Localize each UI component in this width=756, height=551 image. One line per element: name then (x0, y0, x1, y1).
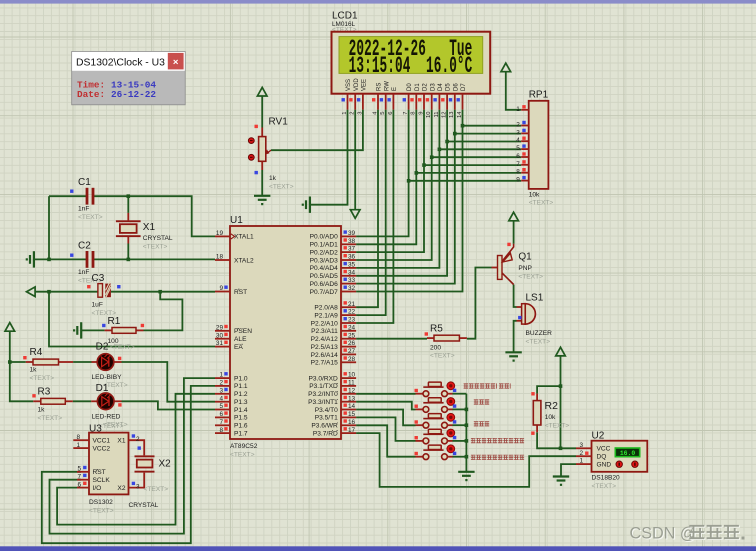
wire RV1 top to power arrow (261, 96, 263, 128)
svg-text:R2: R2 (545, 400, 559, 412)
svg-text:23: 23 (348, 317, 356, 324)
wire R1 left to ground (81, 329, 104, 331)
svg-text:13: 13 (449, 112, 455, 118)
svg-text:9: 9 (516, 177, 520, 184)
wire EA net (49, 292, 215, 347)
svg-text:4: 4 (516, 137, 520, 144)
svg-text:16: 16 (348, 419, 356, 426)
LED D2 (LED-BIBY) (92, 342, 128, 390)
svg-text:ALE: ALE (234, 336, 247, 343)
svg-text:<TEXT>: <TEXT> (269, 184, 294, 191)
wire Q1 collector to LS1 (514, 285, 517, 308)
svg-text:22: 22 (348, 309, 356, 316)
svg-text:31: 31 (216, 340, 224, 347)
svg-text:P0.0/AD0: P0.0/AD0 (310, 234, 339, 241)
wire LCD D3 to U1 P0.3 and RP1 pin 6 (356, 110, 521, 260)
svg-text:RST: RST (234, 289, 247, 296)
svg-text:8: 8 (219, 427, 223, 434)
svg-text:21: 21 (348, 301, 356, 308)
svg-text:<TEXT>: <TEXT> (110, 344, 135, 351)
wire U3 I/O to U1 P1.2 (57, 394, 215, 525)
svg-text:36: 36 (348, 254, 356, 261)
push button SW4 (415, 429, 467, 444)
svg-text:U3: U3 (89, 424, 102, 435)
power arrow left (C3/RST rail) (27, 287, 36, 297)
svg-text:VDD: VDD (354, 78, 360, 91)
svg-text:R4: R4 (30, 347, 43, 358)
svg-text:8: 8 (411, 112, 417, 115)
svg-text:26: 26 (348, 340, 356, 347)
wire LCD D5 to U1 P0.5 and RP1 pin 4 (356, 110, 521, 276)
svg-text:P2.1/A9: P2.1/A9 (314, 312, 338, 319)
buzzer LS1 (517, 293, 553, 346)
svg-text:P0.4/AD4: P0.4/AD4 (310, 265, 339, 272)
svg-text:4: 4 (219, 395, 223, 402)
svg-text:1k: 1k (30, 367, 38, 374)
svg-text:RV1: RV1 (269, 117, 289, 128)
wire LS1 to ground (514, 321, 517, 352)
wire LCD RW to U1 P2.1 (356, 110, 386, 316)
svg-text:X2: X2 (159, 459, 172, 470)
wire XTAL2 net (gnd - C2 - X1 bottom - U1 pin18) (34, 258, 215, 262)
svg-text:13:15:04 16.0°C: 13:15:04 16.0°C (349, 53, 473, 79)
svg-text:3: 3 (579, 442, 583, 449)
resistor pack RP1 10k (516, 90, 553, 207)
svg-text:9: 9 (219, 285, 223, 292)
svg-text:<TEXT>: <TEXT> (545, 423, 570, 430)
svg-text:P2.7/A15: P2.7/A15 (311, 360, 338, 367)
wire LCD VEE to RV1 wiper (271, 110, 363, 151)
svg-text:39: 39 (348, 230, 356, 237)
svg-text:3: 3 (219, 387, 223, 394)
svg-text:×: × (173, 57, 179, 68)
svg-text:1k: 1k (269, 175, 277, 182)
svg-text:8: 8 (76, 434, 80, 441)
svg-text:PSEN: PSEN (234, 328, 252, 335)
wire U1 P3.4 to button 3 (356, 410, 415, 426)
wire LCD D0 to U1 P0.0 and RP1 pin 9 (356, 110, 521, 237)
wire R4 to D2 and D2 to U1 P1.3 (73, 362, 215, 402)
svg-text:1: 1 (219, 372, 223, 379)
push button SW5 (415, 445, 467, 460)
svg-text:D4: D4 (438, 83, 444, 91)
svg-text:D3: D3 (430, 83, 436, 91)
svg-text:33: 33 (348, 277, 356, 284)
svg-text:24: 24 (348, 324, 356, 331)
IC U2 DS18B20 (576, 431, 647, 491)
svg-text:VCC: VCC (597, 446, 611, 453)
resistor R4 1k (23, 347, 73, 382)
svg-text:P1.7: P1.7 (234, 430, 248, 437)
svg-text:P1.3: P1.3 (234, 399, 248, 406)
svg-text:7: 7 (219, 419, 223, 426)
LCD LCD1 LM016L (332, 11, 491, 118)
svg-text:10k: 10k (545, 414, 556, 421)
svg-text:P3.3/INT1: P3.3/INT1 (308, 399, 338, 406)
svg-text:10: 10 (426, 112, 432, 118)
svg-text:<TEXT>: <TEXT> (30, 375, 55, 382)
svg-text:3: 3 (136, 483, 140, 490)
svg-text:D2: D2 (96, 342, 109, 353)
wire U3 RST to U1 P1.1 (42, 386, 215, 543)
svg-text:R3: R3 (38, 387, 51, 398)
svg-text:D0: D0 (407, 83, 413, 91)
ground (LS1) (505, 352, 521, 361)
svg-text:VSS: VSS (346, 79, 352, 91)
svg-text:RS: RS (377, 83, 383, 91)
wire R3 to D1 and D1 to U1 P1.4 (73, 401, 215, 409)
svg-text:<TEXT>: <TEXT> (144, 486, 169, 493)
wire RV1 bottom to ground (261, 170, 263, 196)
wire XTAL1 net (C1 - X1 top - U1 pin19) (49, 194, 215, 259)
svg-text:D2: D2 (423, 83, 429, 91)
wire U1 P3.3 to button 2 (356, 402, 415, 410)
ground (RV1) (254, 196, 270, 205)
svg-text:P0.2/AD2: P0.2/AD2 (310, 249, 339, 256)
wire Q1 emitter to power arrow (513, 221, 515, 244)
wire U2 GND to ground (561, 464, 576, 476)
label button3 (decrease) (474, 421, 489, 426)
svg-text:16.0: 16.0 (620, 450, 636, 457)
svg-text:11: 11 (434, 112, 440, 118)
svg-text:11: 11 (348, 380, 355, 387)
power arrow (RV1) (257, 87, 267, 96)
svg-text:DS1302\Clock - U3: DS1302\Clock - U3 (76, 58, 165, 69)
resistor R1 100 (102, 316, 144, 351)
svg-text:1: 1 (76, 442, 80, 449)
resistor R3 1k (32, 387, 73, 423)
svg-text:<TEXT>: <TEXT> (143, 244, 168, 251)
svg-text:P3.7/RD: P3.7/RD (313, 430, 338, 437)
svg-text:18: 18 (216, 254, 224, 261)
popup window DS1302 Clock - U3 (72, 52, 186, 105)
svg-text:<TEXT>: <TEXT> (78, 214, 103, 221)
svg-text:1: 1 (516, 106, 520, 113)
svg-text:14: 14 (348, 403, 356, 410)
wire RST net (arrow - C3 - U1 pin9 - R1 jog) (35, 290, 215, 331)
wire LCD E to U1 P2.2 (356, 110, 393, 323)
power arrow (RP1 pin1) (501, 63, 511, 72)
svg-text:P3.1/TXD: P3.1/TXD (309, 383, 338, 390)
svg-text:15: 15 (348, 411, 356, 418)
svg-text:26-12-22: 26-12-22 (111, 89, 156, 100)
svg-text:7: 7 (77, 474, 81, 481)
wire LCD D4 to U1 P0.4 and RP1 pin 5 (356, 110, 521, 268)
svg-text:<TEXT>: <TEXT> (529, 200, 554, 207)
svg-text:XTAL1: XTAL1 (234, 234, 254, 241)
wire LCD RS to U1 P2.0 (356, 110, 378, 308)
svg-text:34: 34 (348, 269, 356, 276)
svg-text:38: 38 (348, 238, 356, 245)
svg-text:E: E (392, 87, 398, 91)
svg-text:U1: U1 (230, 215, 243, 226)
svg-text:<TEXT>: <TEXT> (99, 423, 124, 430)
ground (R1) (73, 322, 81, 338)
label button5 (temp lower set) (471, 455, 524, 460)
svg-text:28: 28 (348, 356, 356, 363)
svg-text:1nF: 1nF (78, 269, 89, 276)
svg-text:5: 5 (380, 112, 386, 115)
svg-text:17: 17 (348, 427, 356, 434)
svg-text:1: 1 (342, 112, 348, 115)
svg-text:SCLK: SCLK (93, 477, 111, 484)
svg-text:<TEXT>: <TEXT> (526, 339, 551, 346)
capacitor C2 (70, 241, 103, 285)
svg-text:LED-BIBY: LED-BIBY (92, 374, 123, 381)
svg-text:P1.0: P1.0 (234, 375, 248, 382)
wire LCD VDD to power-down arrow (354, 110, 356, 210)
svg-text:PNP: PNP (518, 265, 532, 272)
svg-text:P0.6/AD6: P0.6/AD6 (310, 281, 339, 288)
power arrow down (LCD VDD) (350, 210, 360, 219)
wire RP1 pin1 to power arrow (506, 72, 521, 110)
svg-text:P2.3/A11: P2.3/A11 (311, 328, 338, 335)
svg-text:5: 5 (516, 145, 520, 152)
svg-text:R1: R1 (108, 316, 121, 327)
svg-text:C1: C1 (78, 177, 91, 188)
resistor R2 10k (531, 392, 569, 435)
svg-text:RST: RST (93, 469, 106, 476)
power arrow (R4/R3 rail) (5, 323, 15, 332)
wire power rail to R4 and R3 (8, 331, 33, 401)
svg-text:200: 200 (430, 345, 441, 352)
crystal X2 (129, 455, 172, 509)
svg-text:13: 13 (348, 395, 356, 402)
IC U1 AT89C52 (215, 215, 356, 459)
wire LCD VSS to ground (310, 110, 348, 205)
wire LCD D1 to U1 P0.1 and RP1 pin 8 (356, 110, 521, 245)
wire LCD D6 to U1 P0.6 and RP1 pin 3 (356, 110, 521, 284)
svg-text:X2: X2 (117, 485, 125, 492)
power arrow (R2/U2 VCC) (556, 347, 566, 356)
svg-text:2: 2 (579, 450, 583, 457)
ground (U2) (553, 477, 569, 486)
svg-text:5: 5 (77, 466, 81, 473)
label button4 (temp upper set) (471, 438, 524, 443)
svg-text:P3.4/T0: P3.4/T0 (315, 407, 338, 414)
svg-text:Q1: Q1 (518, 252, 532, 263)
svg-text:DQ: DQ (597, 454, 607, 461)
transistor Q1 PNP (492, 243, 544, 285)
watermark CSDN (630, 524, 745, 543)
svg-text:6: 6 (219, 411, 223, 418)
svg-text:D1: D1 (415, 83, 421, 91)
svg-text:P1.2: P1.2 (234, 391, 248, 398)
svg-text:CSDN @: CSDN @ (630, 524, 697, 542)
svg-text:P1.6: P1.6 (234, 423, 248, 430)
svg-text:BUZZER: BUZZER (526, 330, 553, 337)
svg-text:P0.5/AD5: P0.5/AD5 (310, 273, 339, 280)
wire U1 P3.2 to button 1 (356, 393, 415, 395)
ground (C2) (26, 251, 34, 267)
svg-text:EA: EA (234, 344, 243, 351)
label button1 (calendar set) (464, 383, 511, 388)
svg-text:P2.4/A12: P2.4/A12 (311, 336, 338, 343)
svg-text:3: 3 (357, 112, 363, 115)
wire power arrow to R2 and U2 VCC (559, 356, 576, 450)
potentiometer RV1 1k (248, 117, 293, 191)
svg-text:10k: 10k (529, 192, 540, 199)
svg-text:1k: 1k (38, 407, 46, 414)
svg-text:GND: GND (597, 462, 612, 469)
svg-text:12: 12 (442, 112, 448, 118)
svg-text:P1.4: P1.4 (234, 407, 248, 414)
push button SW2 (415, 398, 467, 413)
svg-text:D5: D5 (446, 83, 452, 91)
svg-text:1: 1 (579, 458, 583, 465)
svg-text:LED-RED: LED-RED (92, 414, 121, 421)
svg-text:<TEXT>: <TEXT> (38, 415, 63, 422)
svg-text:30: 30 (216, 332, 224, 339)
ground (LCD VSS) (302, 197, 310, 213)
wire U1 P3.7 to U2 DQ (356, 433, 576, 487)
svg-text:2: 2 (350, 112, 356, 115)
svg-text:RP1: RP1 (529, 90, 549, 101)
svg-text:1uF: 1uF (92, 302, 103, 309)
svg-text:LS1: LS1 (526, 293, 544, 304)
svg-text:DS1302: DS1302 (89, 499, 113, 506)
svg-text:9: 9 (418, 112, 424, 115)
svg-text:6: 6 (388, 112, 394, 115)
push button SW3 (415, 413, 467, 428)
svg-text:D6: D6 (453, 83, 459, 91)
wire U1 P2.4 to R5 (356, 338, 427, 340)
svg-text:X1: X1 (117, 438, 125, 445)
svg-text:P2.0/A8: P2.0/A8 (314, 305, 338, 312)
wire R2 bottom (537, 432, 560, 448)
svg-text:P3.6/WR: P3.6/WR (311, 423, 338, 430)
svg-text:2: 2 (516, 122, 520, 129)
ground (buttons) (458, 472, 474, 481)
svg-text:37: 37 (348, 246, 356, 253)
svg-text:25: 25 (348, 332, 356, 339)
svg-text:P0.7/AD7: P0.7/AD7 (310, 289, 339, 296)
svg-text:6: 6 (77, 481, 81, 488)
svg-text:10: 10 (348, 372, 356, 379)
svg-text:6: 6 (516, 153, 520, 160)
svg-text:<TEXT>: <TEXT> (89, 508, 114, 515)
svg-text:P0.1/AD1: P0.1/AD1 (310, 242, 339, 249)
svg-text:C2: C2 (78, 241, 91, 252)
push button SW1 (415, 382, 467, 397)
capacitor C1 (70, 177, 103, 221)
svg-text:VCC2: VCC2 (93, 445, 111, 452)
svg-text:5: 5 (219, 403, 223, 410)
label button2 (increase) (474, 399, 489, 404)
svg-text:32: 32 (348, 285, 356, 292)
svg-text:27: 27 (348, 348, 356, 355)
wire button common bus to ground (465, 394, 469, 472)
wire R2 top (537, 386, 560, 394)
svg-text:3: 3 (516, 129, 520, 136)
wire LCD D2 to U1 P0.2 and RP1 pin 7 (356, 110, 521, 253)
svg-text:8: 8 (516, 169, 520, 176)
svg-text:P3.2/INT0: P3.2/INT0 (308, 391, 338, 398)
svg-text:D1: D1 (96, 383, 109, 394)
svg-text:P2.5/A13: P2.5/A13 (311, 344, 338, 351)
svg-text:CRYSTAL: CRYSTAL (129, 502, 159, 509)
wire U1 P3.5 to button 4 (356, 417, 415, 441)
svg-text:<TEXT>: <TEXT> (230, 452, 255, 459)
svg-text:29: 29 (216, 324, 224, 331)
svg-text:XTAL2: XTAL2 (234, 257, 254, 264)
svg-text:CRYSTAL: CRYSTAL (143, 235, 173, 242)
svg-text:<TEXT>: <TEXT> (592, 483, 617, 490)
svg-text:P2.2/A10: P2.2/A10 (311, 320, 338, 327)
svg-text:P3.5/T1: P3.5/T1 (315, 415, 338, 422)
svg-text:P1.5: P1.5 (234, 415, 248, 422)
svg-text:19: 19 (216, 230, 224, 237)
svg-text:1nF: 1nF (78, 206, 89, 213)
svg-text:RW: RW (384, 81, 390, 91)
svg-text:P3.0/RXD: P3.0/RXD (308, 375, 338, 382)
wire LCD D7 to U1 P0.7 and RP1 pin 2 (356, 110, 521, 292)
wire U3 SCLK to U1 P1.0 (50, 378, 216, 533)
svg-text:P2.6/A14: P2.6/A14 (311, 352, 338, 359)
svg-text:X1: X1 (143, 222, 156, 233)
svg-text:7: 7 (516, 161, 520, 168)
resistor R5 200 (425, 324, 467, 360)
capacitor C3 (87, 273, 120, 317)
svg-text:D7: D7 (461, 83, 467, 91)
LED D1 (LED-RED) (91, 383, 128, 429)
svg-text:P1.1: P1.1 (234, 383, 248, 390)
IC U3 DS1302 (73, 423, 144, 515)
svg-text:35: 35 (348, 262, 356, 269)
wire R5 to Q1 base (467, 268, 492, 339)
svg-text:14: 14 (457, 111, 463, 118)
svg-text:Date:: Date: (77, 89, 105, 100)
svg-text:LCD1: LCD1 (332, 11, 358, 22)
svg-text:7: 7 (403, 112, 409, 115)
svg-text:AT89C52: AT89C52 (230, 443, 258, 450)
svg-text:VCC1: VCC1 (93, 438, 111, 445)
svg-text:12: 12 (348, 387, 356, 394)
svg-text:I/O: I/O (93, 485, 102, 492)
svg-text:DS18B20: DS18B20 (592, 475, 621, 482)
svg-text:P0.3/AD3: P0.3/AD3 (310, 257, 339, 264)
crystal X1 (116, 196, 173, 259)
svg-text:VEE: VEE (362, 79, 368, 91)
svg-text:R5: R5 (430, 324, 443, 335)
svg-text:2: 2 (219, 380, 223, 387)
svg-text:<TEXT>: <TEXT> (518, 274, 543, 281)
wire U1 P3.6 to button 5 (356, 425, 415, 456)
power arrow (Q1 emitter) (509, 212, 519, 221)
svg-text:<TEXT>: <TEXT> (430, 353, 455, 360)
svg-text:C3: C3 (92, 273, 105, 284)
svg-text:2: 2 (136, 436, 140, 443)
